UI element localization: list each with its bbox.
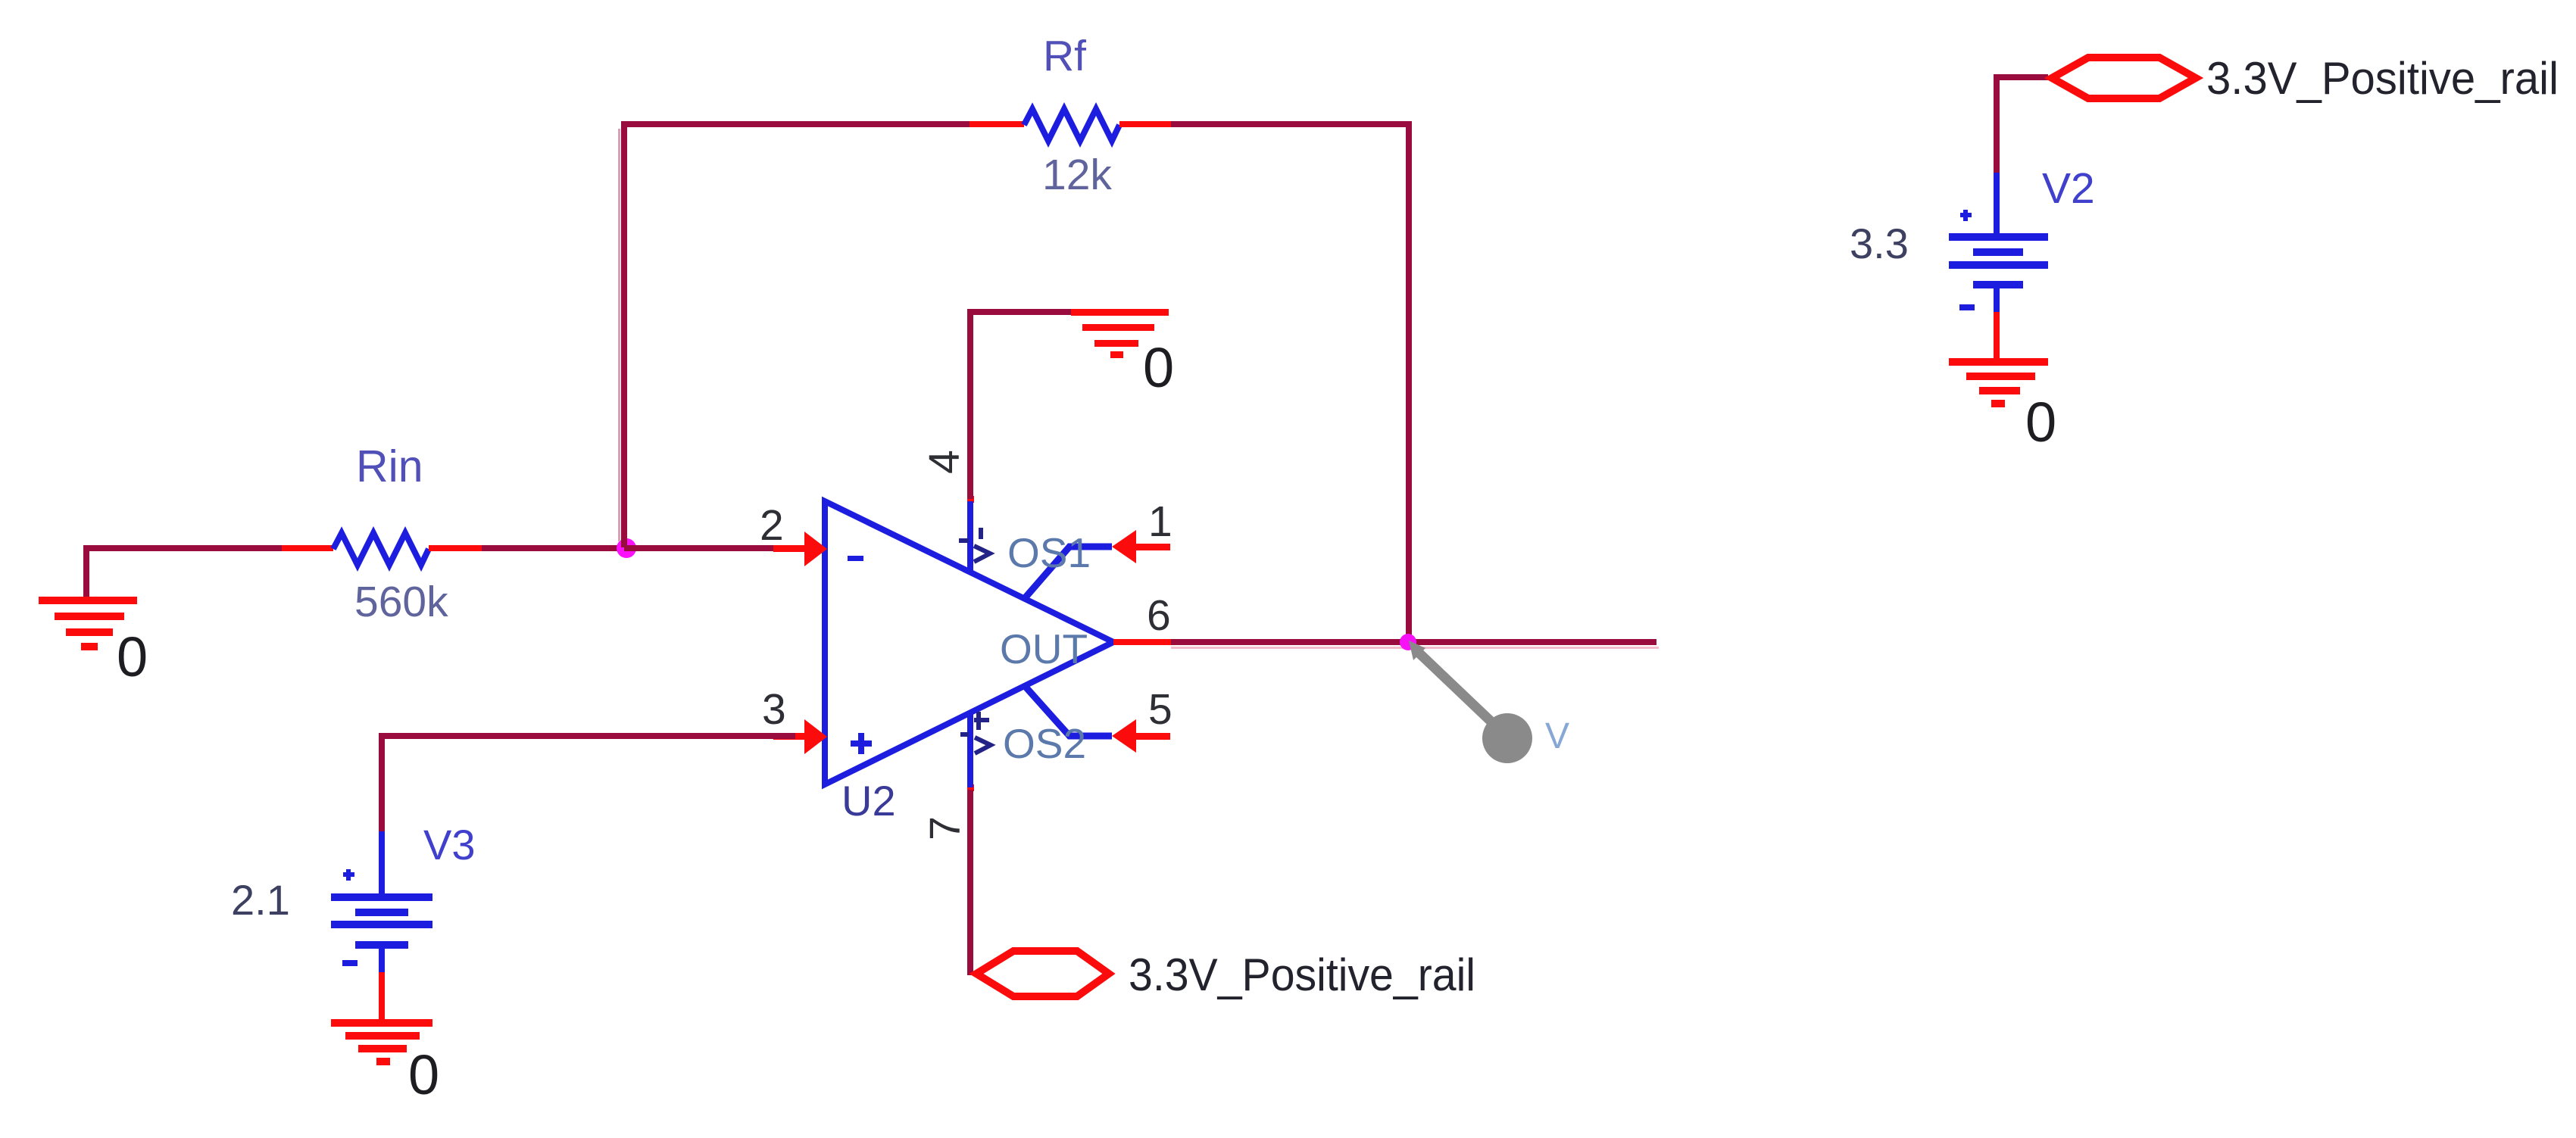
pin 2 inverting input — [760, 501, 827, 566]
net label 3.3V_Positive_rail (top right) — [2206, 53, 2559, 104]
wire pin 3 to V3 — [379, 733, 795, 739]
op-amp U2 body — [825, 501, 1113, 784]
svg-text:Rin: Rin — [356, 441, 423, 491]
svg-text:3.3V_Positive_rail: 3.3V_Positive_rail — [2206, 53, 2559, 104]
svg-text:0: 0 — [408, 1043, 439, 1106]
svg-text:5: 5 — [1148, 685, 1172, 734]
svg-text:2.1: 2.1 — [231, 876, 290, 924]
node junction (inverting input) — [617, 538, 636, 558]
pin 7 V+ bottom — [921, 712, 991, 975]
label OUT — [1000, 625, 1088, 672]
svg-text:2: 2 — [760, 501, 784, 550]
wire feedback top horizontal — [621, 121, 970, 127]
battery V2 — [1949, 173, 2048, 360]
battery V3 — [331, 831, 432, 1022]
label U2 — [841, 777, 896, 825]
wire V2 top horizontal — [1994, 74, 2048, 80]
svg-text:560k: 560k — [354, 578, 448, 626]
svg-text:OS2: OS2 — [1003, 720, 1086, 767]
label Rin — [356, 441, 423, 491]
wire node to pin 2 — [624, 545, 795, 551]
voltage probe V — [1409, 641, 1569, 763]
node junction (output) — [1400, 634, 1416, 650]
wire output — [1171, 639, 1659, 649]
svg-text:U2: U2 — [841, 777, 896, 825]
power rail symbol 3.3V_Positive_rail (top right) — [2052, 58, 2196, 98]
pin 1 OS1 — [1025, 497, 1172, 598]
ground 0 (below V2) — [1949, 358, 2056, 454]
svg-text:Rf: Rf — [1043, 32, 1086, 80]
svg-text:1: 1 — [1148, 497, 1172, 546]
wire Rf to right corner — [1171, 121, 1412, 127]
label Rf value 12k — [1042, 151, 1112, 199]
svg-text:V: V — [1545, 716, 1569, 756]
pin 3 non-inverting input — [762, 685, 827, 754]
pin 5 OS2 — [1025, 685, 1172, 753]
svg-text:0: 0 — [1143, 336, 1174, 399]
wire pin4 corner to ground — [967, 309, 1071, 315]
wire feedback right vertical — [1406, 121, 1412, 642]
label V3 — [423, 821, 476, 868]
wire Rin to node — [482, 545, 627, 551]
pin 6 OUT — [1113, 591, 1171, 645]
svg-text:4: 4 — [920, 450, 969, 474]
label V2 — [2042, 164, 2095, 213]
svg-text:3: 3 — [762, 685, 786, 734]
power rail symbol 3.3V_Positive_rail (bottom) — [976, 951, 1109, 996]
svg-text:V2: V2 — [2042, 164, 2095, 213]
label OS1 — [1007, 529, 1091, 576]
svg-text:OS1: OS1 — [1007, 529, 1091, 576]
svg-text:0: 0 — [117, 625, 148, 688]
svg-text:V3: V3 — [423, 821, 476, 868]
label V3 value 2.1 — [231, 876, 290, 924]
ground 0 (left input ground) — [39, 548, 148, 688]
ground 0 (op-amp V- ground) — [1071, 309, 1174, 399]
wire V3 top vertical — [379, 733, 385, 831]
pin 4 V- top — [920, 312, 990, 573]
svg-text:3.3V_Positive_rail: 3.3V_Positive_rail — [1129, 949, 1475, 1000]
label Rf — [1043, 32, 1086, 80]
wire ground to Rin — [83, 545, 282, 551]
svg-text:OUT: OUT — [1000, 625, 1088, 672]
ground 0 (below V3) — [331, 1019, 439, 1106]
svg-text:12k: 12k — [1042, 151, 1112, 199]
resistor Rf — [970, 109, 1171, 141]
resistor Rin — [282, 533, 482, 565]
label OS2 — [1003, 720, 1086, 767]
svg-text:3.3: 3.3 — [1850, 220, 1909, 267]
svg-text:0: 0 — [2025, 391, 2056, 454]
svg-text:7: 7 — [921, 816, 970, 840]
net label 3.3V_Positive_rail (bottom) — [1129, 949, 1475, 1000]
wire feedback left vertical — [618, 121, 627, 547]
svg-text:6: 6 — [1147, 591, 1171, 640]
wire V2 vertical — [1994, 74, 2000, 173]
label V2 value 3.3 — [1850, 220, 1909, 267]
label Rin value 560k — [354, 578, 448, 626]
